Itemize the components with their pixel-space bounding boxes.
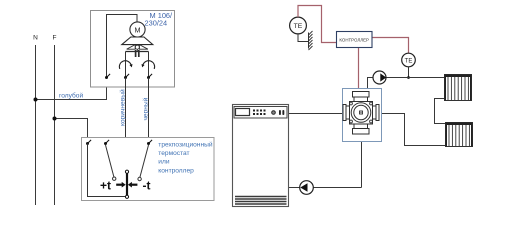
svg-text:черный: черный — [142, 97, 150, 120]
svg-text:коричневый: коричневый — [118, 89, 126, 126]
svg-text:ТЕ: ТЕ — [294, 23, 303, 30]
svg-text:N: N — [33, 35, 38, 42]
svg-text:230/24: 230/24 — [145, 19, 168, 28]
svg-text:трехпозиционный: трехпозиционный — [158, 141, 213, 149]
svg-text:F: F — [53, 35, 57, 42]
svg-text:М: М — [135, 25, 141, 34]
svg-text:КОНТРОЛЛЕР: КОНТРОЛЛЕР — [339, 37, 369, 42]
svg-text:голубой: голубой — [59, 91, 83, 99]
svg-text:ТЕ: ТЕ — [405, 58, 413, 64]
svg-text:термостат: термостат — [158, 150, 189, 157]
svg-text:+t: +t — [100, 179, 111, 193]
svg-text:-t: -t — [143, 179, 151, 193]
svg-text:или: или — [158, 159, 170, 166]
svg-text:контроллер: контроллер — [158, 167, 194, 174]
